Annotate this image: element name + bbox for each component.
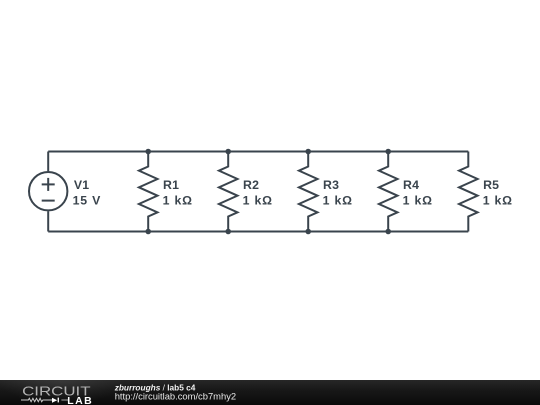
resistor R4 bbox=[379, 152, 398, 232]
junction node R4 bottom bbox=[385, 229, 391, 235]
junction node R1 bottom bbox=[145, 229, 151, 235]
svg-text:http://circuitlab.com/cb7mhy2: http://circuitlab.com/cb7mhy2 bbox=[115, 391, 236, 402]
wire V1 top lead bbox=[47, 152, 49, 172]
svg-text:R3: R3 bbox=[323, 178, 339, 192]
svg-text:R1: R1 bbox=[163, 178, 179, 192]
junction node R3 top bbox=[305, 149, 311, 155]
svg-text:R4: R4 bbox=[403, 178, 419, 192]
junction node R3 bottom bbox=[305, 229, 311, 235]
resistor R5 bbox=[459, 152, 478, 232]
wire bottom bus bbox=[48, 231, 468, 233]
junction node R2 bottom bbox=[225, 229, 231, 235]
junction node R4 top bbox=[385, 149, 391, 155]
junction node R1 top bbox=[145, 149, 151, 155]
svg-text:R2: R2 bbox=[243, 178, 259, 192]
svg-text:V1: V1 bbox=[74, 178, 89, 192]
voltage source V1 bbox=[29, 172, 67, 210]
svg-text:LAB: LAB bbox=[67, 395, 93, 405]
wire V1 bottom lead bbox=[47, 211, 49, 231]
wire top bus bbox=[48, 151, 468, 153]
svg-text:1 kΩ: 1 kΩ bbox=[323, 194, 353, 208]
svg-text:15 V: 15 V bbox=[73, 194, 102, 208]
resistor R2 bbox=[219, 152, 238, 232]
footer bar bbox=[0, 380, 540, 405]
svg-text:R5: R5 bbox=[483, 178, 499, 192]
resistor R1 bbox=[139, 152, 158, 232]
svg-text:1 kΩ: 1 kΩ bbox=[243, 194, 273, 208]
svg-text:1 kΩ: 1 kΩ bbox=[403, 194, 433, 208]
resistor R3 bbox=[299, 152, 318, 232]
svg-text:1 kΩ: 1 kΩ bbox=[483, 194, 513, 208]
CircuitLab logo circuit line with resistor and diode bbox=[21, 398, 68, 401]
junction node R2 top bbox=[225, 149, 231, 155]
svg-text:1 kΩ: 1 kΩ bbox=[163, 194, 193, 208]
